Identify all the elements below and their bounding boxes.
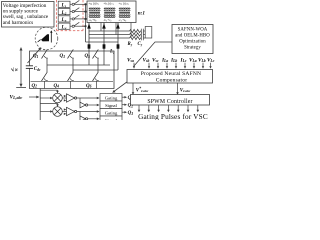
svg-text:Vsc: Vsc [152,58,159,64]
svg-text:Compensator: Compensator [156,77,188,83]
svg-text:L4: L4 [61,26,67,31]
load L4 box [58,23,70,30]
switch SW1 [70,0,86,5]
gating feed wire [39,89,41,121]
svg-text:Q6: Q6 [86,84,92,89]
SPWM controller box [131,95,210,106]
svg-text:n:1: n:1 [138,10,146,16]
switch SW4 [70,22,86,27]
IGBT Q3 [68,49,74,72]
red dashed loads enclosure [57,0,84,31]
transformer box n:1 [87,1,136,23]
svg-text:Signal: Signal [105,118,117,120]
transformer T2 [104,3,116,23]
disturbance icon inside circle [38,30,53,42]
svg-text:+a1 (t) b1: +a1 (t) b1 [89,3,99,7]
riser wire 2 [103,23,105,66]
PCC bus line C [89,37,129,39]
svg-text:VLabc: VLabc [180,88,191,93]
svg-text:Q2: Q2 [32,84,38,89]
svg-text:Q3: Q3 [60,54,66,59]
arrow VLabc ref [132,83,135,95]
injection arrow phase c [116,23,120,28]
svg-text:Signal: Signal [105,103,117,108]
svg-text:Proposed Neural SAFNN: Proposed Neural SAFNN [141,71,201,77]
transformer T3 [119,3,131,23]
svg-text:-c2 +a2: -c2 +a2 [119,19,127,23]
injection arrow phase b [102,23,106,28]
IGBT Q1 [42,49,48,72]
gating signal box 3 [100,109,122,117]
PCC bus line B [89,34,129,36]
capacitor Cf phase a [141,29,145,34]
cell divider 1 [44,81,46,88]
svg-text:SAFNN-WOA: SAFNN-WOA [178,27,208,32]
arrow compensator to gating chain [112,82,127,93]
wire to multiplier M2 top [40,104,59,107]
note box: voltage imperfection annotation [2,2,55,28]
junction dot row4 [85,25,87,27]
phase output line B [73,69,118,71]
loads bus wire [85,4,87,42]
compensator box [127,70,213,84]
wire stub T3 secondary to bus C [130,23,132,39]
filter common node box [145,27,152,39]
gating signal box 1 [100,94,122,102]
multiplier M1 [53,93,63,103]
annotation arrow from VSC to circle [28,47,42,63]
resistor Rf phase c [129,36,142,39]
wire T1 to gating box [77,97,100,100]
svg-text:Vsa: Vsa [127,58,134,64]
switch SW2 [70,8,86,13]
switch SW3 [70,15,86,20]
junction dot row1 [85,3,87,5]
svg-text:ILa: ILa [161,58,168,64]
svg-text:ILb: ILb [170,58,177,64]
wire optimization to compensator [134,42,173,67]
riser wire 1 [88,23,90,66]
svg-text:VL,abc: VL,abc [10,94,23,100]
svg-text:Q5: Q5 [85,54,91,59]
multiplier M2 [53,107,63,117]
input arrows into compensator [134,63,211,67]
svg-text:Optimization: Optimization [179,39,206,44]
comparator T2 [62,107,76,115]
svg-text:Strategy: Strategy [184,45,201,50]
svg-text:VLa: VLa [189,58,197,64]
svg-text:SPWM Controller: SPWM Controller [147,99,192,105]
svg-text:-b2 +c2: -b2 +c2 [104,19,112,23]
resistor Rf phase b [129,33,142,36]
svg-text:L2: L2 [61,11,67,16]
output arrow Q2 [122,104,133,109]
output arrow Q3 [122,111,133,116]
svg-text:Gating: Gating [105,110,118,115]
svg-text:Q1: Q1 [33,54,39,59]
capacitor Cf phase c [141,36,145,41]
svg-text:Cdc: Cdc [34,67,41,72]
IGBT Q6 [93,72,99,81]
svg-text:+b1 (t) c1: +b1 (t) c1 [104,3,114,7]
svg-text:Gating Pulses for VSC: Gating Pulses for VSC [138,113,208,120]
svg-text:and harmonics: and harmonics [3,20,33,26]
svg-text:VLc: VLc [207,58,215,64]
NOT gate N2 (clipped) [80,112,100,122]
svg-text:ILc: ILc [180,58,187,64]
PCC bus line A [89,30,129,32]
wire to multiplier M2 left [40,110,53,113]
inductor Lf choke 2 [103,44,106,48]
output arrow Q1 [122,96,133,101]
load L3 box [58,16,70,23]
wire T2 to gating box [77,110,100,113]
disturbance source circle (dashed) [35,27,58,50]
gating signal box 2 [100,101,122,109]
svg-text:L3: L3 [61,18,67,23]
IGBT Q4 [68,72,74,81]
VSC box [30,51,115,89]
riser wire 3 [117,23,119,71]
junction dot row2 [85,11,87,13]
junction dot row3 [85,18,87,20]
optimization strategy box [172,25,213,54]
NOT gate N1 [80,98,100,108]
wire stub T1 secondary to bus A [100,23,102,32]
injection arrow phase a [87,23,91,28]
Vdc measurement arrow [16,47,26,87]
svg-text:Gating: Gating [105,95,118,100]
IGBT Q5 [93,49,99,72]
svg-text:L1: L1 [61,4,67,9]
wire stub T2 secondary to bus B [115,23,117,35]
svg-text:and OELM-HBO: and OELM-HBO [175,33,210,38]
svg-text:+c1 (t) a1: +c1 (t) a1 [119,3,129,7]
cell divider 2 [70,81,72,88]
arrow VLabc meas [176,83,179,95]
svg-text:-a2 +b2: -a2 +b2 [89,19,97,23]
inductor Lf choke 1 [88,44,91,48]
load L1 box [58,1,70,8]
transformer T1 [89,3,101,23]
capacitor Cdc [26,66,33,69]
wire to multiplier M1 left [40,97,53,100]
capacitor Cf phase b [141,32,145,37]
gating signal box 4 (clipped) [100,116,122,124]
svg-text:Q3: Q3 [128,111,134,116]
PCC bus line D [86,41,119,43]
SPWM output arrows [139,105,198,111]
VSC bottom bus [31,80,114,82]
cell divider 3 [96,81,98,88]
svg-text:Vsb: Vsb [143,58,150,64]
resistor Rf phase a [129,29,142,32]
input arrow VLabc [29,96,40,99]
svg-text:VLb: VLb [198,58,206,64]
phase output line A [47,64,110,66]
wire to multiplier M1 top [40,90,59,93]
IGBT Q2 [42,72,48,81]
comparator T1 [62,94,76,102]
svg-text:Q4: Q4 [54,84,60,89]
inductor Lf choke 3 [117,44,120,48]
load L2 box [58,9,70,16]
